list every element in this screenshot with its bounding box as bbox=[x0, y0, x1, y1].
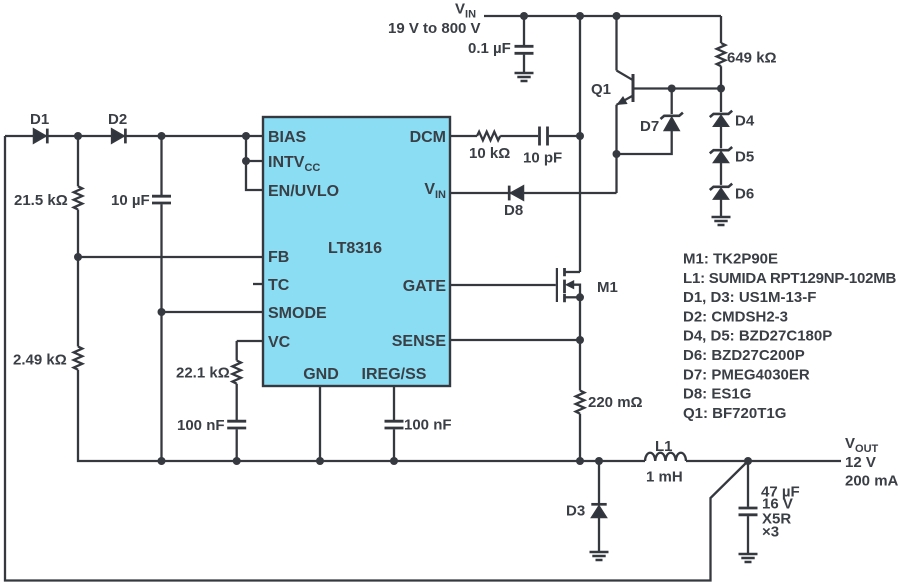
node dot rail x580 bbox=[576, 457, 584, 465]
wire 2.49k to gnd rail bbox=[78, 370, 645, 461]
svg-text:VOUT: VOUT bbox=[845, 435, 879, 455]
resistor 22.1k bbox=[176, 361, 241, 384]
svg-text:DCM: DCM bbox=[410, 129, 446, 146]
svg-text:D8: ES1G: D8: ES1G bbox=[683, 386, 751, 403]
node dot BIAS/10uF bbox=[158, 132, 166, 140]
wire SENSE bbox=[450, 339, 580, 341]
ground (47uF) bbox=[739, 554, 758, 562]
svg-text:LT8316: LT8316 bbox=[328, 240, 382, 257]
diode D1 bbox=[30, 111, 49, 143]
ground (D3) bbox=[590, 552, 609, 560]
svg-text:D8: D8 bbox=[504, 202, 523, 219]
wire 21.5k upper bbox=[77, 136, 79, 186]
wire 47uF to ground bbox=[747, 516, 749, 553]
svg-text:12 V: 12 V bbox=[845, 454, 876, 471]
node dot DCM RC bbox=[576, 132, 584, 140]
node dot INTVcc bbox=[242, 157, 250, 165]
diode D4 (zener) bbox=[710, 111, 755, 130]
diode D3 bbox=[566, 503, 607, 520]
svg-text:Q1: BF720T1G: Q1: BF720T1G bbox=[683, 405, 786, 422]
diode D5 (zener) bbox=[710, 147, 754, 166]
wire 10k to 10pF bbox=[500, 135, 538, 137]
svg-text:D2: D2 bbox=[108, 111, 127, 128]
wire feedback diagonal bbox=[5, 136, 748, 581]
node dot SENSE bbox=[576, 336, 584, 344]
wire INTVcc/EN-UVLO branch bbox=[246, 136, 263, 190]
svg-text:19 V to 800 V: 19 V to 800 V bbox=[388, 20, 481, 37]
node dot emitter/D7 return bbox=[613, 150, 621, 158]
wire L1 to output bbox=[686, 460, 841, 462]
svg-text:SMODE: SMODE bbox=[268, 305, 327, 322]
wire D5-D6 bbox=[720, 163, 722, 185]
wire 10uF to SMODE bbox=[160, 204, 162, 461]
svg-text:10 kΩ: 10 kΩ bbox=[469, 145, 510, 162]
diode D8 bbox=[504, 186, 524, 219]
wire D4-D5 bbox=[720, 126, 722, 148]
svg-text:D7: PMEG4030ER: D7: PMEG4030ER bbox=[683, 366, 810, 383]
IC U1 LT8316 bbox=[263, 117, 450, 386]
wire 100nF to rail bbox=[236, 429, 238, 461]
inductor L1 bbox=[645, 438, 686, 486]
node dot base/D7 bbox=[668, 85, 676, 93]
svg-text:VIN: VIN bbox=[455, 1, 476, 21]
node dot base/zener stack bbox=[717, 85, 725, 93]
diode D6 (zener) bbox=[710, 184, 754, 203]
wire TC stub bbox=[253, 283, 263, 285]
svg-text:220 mΩ: 220 mΩ bbox=[588, 394, 643, 411]
svg-text:L1: SUMIDA RPT129NP-102MB: L1: SUMIDA RPT129NP-102MB bbox=[683, 270, 897, 287]
svg-text:D2: CMDSH2-3: D2: CMDSH2-3 bbox=[683, 308, 788, 325]
ground (zener stack) bbox=[712, 217, 731, 225]
node VIN top label bbox=[388, 1, 481, 38]
svg-text:L1: L1 bbox=[655, 438, 673, 455]
node dot gnd rail 10uF column bbox=[158, 457, 166, 465]
resistor 10k bbox=[469, 132, 510, 162]
node dot rail D3 bbox=[595, 457, 603, 465]
node dot rail x580 bbox=[576, 12, 584, 20]
node dot rail Q1 bbox=[613, 12, 621, 20]
svg-text:IREG/SS: IREG/SS bbox=[362, 366, 427, 383]
svg-text:22.1 kΩ: 22.1 kΩ bbox=[176, 365, 230, 382]
wire GATE bbox=[450, 284, 556, 286]
svg-text:D7: D7 bbox=[640, 118, 659, 135]
wire 10pF to drain line bbox=[549, 135, 580, 137]
mosfet M1 bbox=[557, 268, 618, 302]
svg-text:D5: D5 bbox=[735, 149, 754, 166]
wire D3 drop bbox=[598, 461, 600, 503]
svg-text:100 nF: 100 nF bbox=[177, 417, 225, 434]
svg-text:D6: BZD27C200P: D6: BZD27C200P bbox=[683, 347, 805, 364]
svg-text:D4, D5: BZD27C180P: D4, D5: BZD27C180P bbox=[683, 328, 832, 345]
node dot rail 0.1uF bbox=[520, 12, 528, 20]
svg-text:0.1 µF: 0.1 µF bbox=[468, 40, 511, 57]
svg-text:2.49 kΩ: 2.49 kΩ bbox=[13, 352, 67, 369]
wire DCM to 10k bbox=[450, 135, 477, 137]
wire VIN pin to D8 bbox=[450, 192, 617, 194]
wire Q1 emitter down bbox=[615, 105, 617, 193]
svg-text:TC: TC bbox=[268, 277, 290, 294]
wire FB bbox=[78, 256, 263, 258]
svg-text:Q1: Q1 bbox=[591, 81, 611, 98]
wire D7 cathode bbox=[671, 89, 673, 115]
wire D6 to ground bbox=[720, 199, 722, 216]
svg-text:D4: D4 bbox=[735, 113, 755, 130]
capacitor 100nF (IREG/SS) bbox=[385, 417, 452, 434]
svg-text:200 mA: 200 mA bbox=[845, 473, 899, 490]
wire IREG/SS pin bbox=[393, 386, 395, 420]
diode D2 bbox=[108, 111, 127, 143]
node dot FB bbox=[74, 253, 82, 261]
node dot GND rail bbox=[316, 457, 324, 465]
svg-text:×3: ×3 bbox=[762, 524, 779, 541]
wire top VIN rail bbox=[484, 15, 721, 17]
resistor 21.5k bbox=[14, 186, 82, 209]
svg-text:BIAS: BIAS bbox=[268, 129, 307, 146]
wire 0.1uF drop bbox=[523, 16, 525, 45]
svg-text:21.5 kΩ: 21.5 kΩ bbox=[14, 192, 68, 209]
svg-text:D1, D3: US1M-13-F: D1, D3: US1M-13-F bbox=[683, 289, 816, 306]
wire FB to 2.49k bbox=[77, 257, 79, 347]
svg-text:D6: D6 bbox=[735, 186, 754, 203]
wire VC bbox=[237, 341, 263, 361]
wire 47uF drop bbox=[747, 461, 749, 507]
wire 649k top bbox=[720, 16, 722, 43]
svg-text:1 mH: 1 mH bbox=[646, 469, 683, 486]
wire 10uF top bbox=[160, 136, 162, 195]
resistor 649k bbox=[717, 43, 777, 67]
svg-text:GATE: GATE bbox=[403, 278, 447, 295]
wire GND pin bbox=[319, 386, 321, 461]
wire 21.5k lower bbox=[77, 210, 79, 258]
capacitor 10uF bbox=[111, 192, 171, 209]
wire D3 to ground bbox=[598, 518, 600, 552]
capacitor 47uF bbox=[739, 484, 800, 541]
svg-text:VC: VC bbox=[268, 334, 291, 351]
node VOUT labels bbox=[845, 435, 899, 490]
svg-text:M1: M1 bbox=[597, 279, 618, 296]
svg-text:SENSE: SENSE bbox=[392, 333, 447, 350]
node dot BIAS/INTVcc branch bbox=[242, 132, 250, 140]
svg-text:649 kΩ: 649 kΩ bbox=[727, 50, 777, 67]
svg-text:M1: TK2P90E: M1: TK2P90E bbox=[683, 251, 778, 268]
node dot VOUT bbox=[744, 457, 752, 465]
capacitor 10pF bbox=[523, 127, 562, 167]
svg-text:FB: FB bbox=[268, 249, 289, 266]
wire BIAS line bbox=[5, 135, 263, 137]
diode D7 (schottky) bbox=[640, 113, 683, 135]
wire SMODE bbox=[162, 311, 264, 313]
svg-text:EN/UVLO: EN/UVLO bbox=[268, 183, 339, 200]
wire 220m to rail bbox=[579, 414, 581, 461]
transistor Q1 bbox=[591, 16, 633, 105]
svg-text:10 pF: 10 pF bbox=[523, 150, 562, 167]
capacitor 0.1uF bbox=[468, 40, 534, 57]
ground (0.1uF) bbox=[515, 73, 534, 81]
svg-text:GND: GND bbox=[303, 366, 339, 383]
node dot IREG rail bbox=[390, 457, 398, 465]
wire 22.1k to 100nF bbox=[236, 384, 238, 420]
resistor 220m bbox=[576, 391, 643, 414]
node dot M1 source bbox=[576, 293, 584, 301]
svg-text:D3: D3 bbox=[566, 503, 585, 520]
node dot SMODE bbox=[158, 308, 166, 316]
wire cap to ground bbox=[523, 55, 525, 72]
resistor 2.49k bbox=[13, 347, 82, 370]
wire 100nF to rail bbox=[393, 429, 395, 461]
capacitor 100nF (VC) bbox=[177, 417, 246, 434]
svg-text:100 nF: 100 nF bbox=[404, 417, 452, 434]
parts list bbox=[683, 251, 897, 422]
svg-text:D1: D1 bbox=[30, 111, 49, 128]
node dot rail VC column bbox=[233, 457, 241, 465]
wire Q1 base bbox=[633, 87, 721, 89]
node dot BIAS/21.5k bbox=[74, 132, 82, 140]
wire rail to drain vertical bbox=[579, 16, 581, 272]
wire 649k bottom bbox=[720, 66, 722, 112]
wire D7 anode to emitter bbox=[617, 131, 672, 155]
svg-text:10 µF: 10 µF bbox=[111, 192, 150, 209]
wire source to sense bbox=[579, 297, 581, 390]
